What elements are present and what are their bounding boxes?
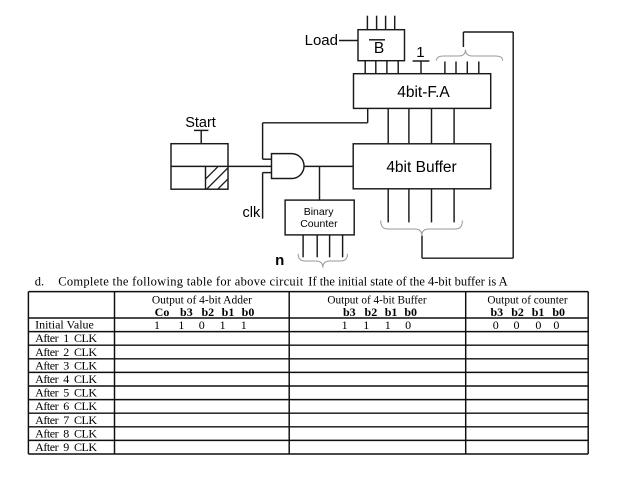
- svg-text:b3: b3: [343, 305, 356, 319]
- svg-text:b3: b3: [180, 305, 193, 319]
- svg-text:1: 1: [178, 318, 184, 332]
- svg-text:b1: b1: [385, 305, 398, 319]
- svg-text:Binary: Binary: [304, 206, 335, 218]
- svg-text:n: n: [275, 252, 284, 269]
- svg-text:1: 1: [220, 318, 226, 332]
- svg-text:b2: b2: [511, 305, 524, 319]
- svg-text:Initial Value: Initial Value: [35, 318, 94, 332]
- svg-text:1: 1: [416, 44, 424, 61]
- svg-text:b0: b0: [404, 305, 417, 319]
- svg-text:b1: b1: [222, 305, 235, 319]
- svg-text:After 7 CLK: After 7 CLK: [35, 413, 97, 427]
- svg-text:clk: clk: [243, 205, 261, 221]
- svg-text:Start: Start: [185, 115, 216, 131]
- svg-text:Load: Load: [305, 32, 338, 49]
- svg-text:1: 1: [154, 318, 160, 332]
- svg-text:0: 0: [405, 318, 411, 332]
- svg-text:0: 0: [553, 318, 559, 332]
- svg-text:d.: d.: [35, 274, 44, 288]
- svg-text:1: 1: [342, 318, 348, 332]
- svg-text:After 2 CLK: After 2 CLK: [35, 345, 97, 359]
- svg-text:4bit-F.A: 4bit-F.A: [397, 84, 450, 101]
- svg-text:After 9 CLK: After 9 CLK: [35, 440, 97, 454]
- svg-text:After 8 CLK: After 8 CLK: [35, 426, 97, 440]
- svg-text:b0: b0: [242, 305, 255, 319]
- svg-text:Co: Co: [155, 305, 170, 319]
- svg-text:Complete the following table f: Complete the following table for above c…: [58, 274, 304, 288]
- svg-text:0: 0: [199, 318, 205, 332]
- svg-text:b2: b2: [365, 305, 378, 319]
- svg-text:If the initial state of the 4-: If the initial state of the 4-bit buffer…: [308, 274, 507, 288]
- svg-text:B: B: [374, 40, 384, 57]
- svg-text:b0: b0: [552, 305, 565, 319]
- svg-text:b1: b1: [532, 305, 545, 319]
- svg-text:After 1 CLK: After 1 CLK: [35, 331, 97, 345]
- svg-text:b3: b3: [490, 305, 503, 319]
- svg-text:0: 0: [493, 318, 499, 332]
- svg-text:After 3 CLK: After 3 CLK: [35, 358, 97, 372]
- svg-text:1: 1: [241, 318, 247, 332]
- svg-text:1: 1: [385, 318, 391, 332]
- svg-text:0: 0: [514, 318, 520, 332]
- svg-text:4bit Buffer: 4bit Buffer: [386, 159, 456, 176]
- svg-text:0: 0: [535, 318, 541, 332]
- svg-text:After 6 CLK: After 6 CLK: [35, 399, 97, 413]
- svg-text:Counter: Counter: [300, 218, 338, 230]
- svg-text:b2: b2: [201, 305, 214, 319]
- svg-text:After 4 CLK: After 4 CLK: [35, 372, 97, 386]
- svg-text:1: 1: [363, 318, 369, 332]
- svg-text:After 5 CLK: After 5 CLK: [35, 386, 97, 400]
